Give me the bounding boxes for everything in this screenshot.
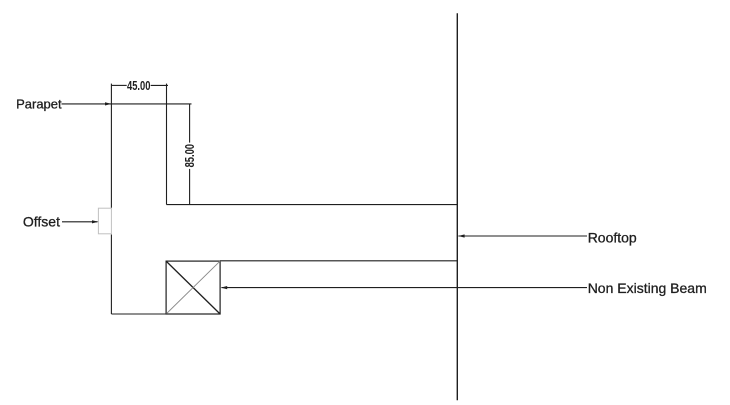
svg-text:45.00: 45.00 [127,80,150,94]
node parapet leader arrowhead [105,102,111,105]
wire rooftop bottom surface [220,260,457,262]
wire parapet bottom edge [111,313,220,315]
node non existing beam crossed box [166,261,220,314]
wire beam box diagonal black [166,261,220,314]
wire building wall vertical line [456,13,458,400]
node non existing beam leader arrowhead [221,286,227,289]
wire dimension line 45.00 right segment [151,84,168,86]
node offset leader arrowhead [92,220,98,223]
svg-text:Rooftop: Rooftop [588,230,637,246]
wire parapet left wall upper segment [110,84,112,208]
wire rooftop leader [458,235,587,237]
wire non existing beam leader [222,287,588,289]
svg-text:Offset: Offset [23,213,60,229]
wire parapet top edge + leader to Parapet label [62,103,192,105]
wire beam box diagonal gray [166,261,220,314]
svg-text:85.00: 85.00 [184,144,198,167]
wire offset leader [62,221,98,223]
svg-text:Parapet: Parapet [16,96,62,111]
wire parapet inner wall [166,84,168,205]
wire dimension line 45.00 left segment [111,84,126,86]
node offset tab rectangle [98,208,111,234]
wire vertical dimension 85.00 upper segment [189,104,191,143]
svg-text:Non Existing Beam: Non Existing Beam [588,280,707,296]
wire vertical dimension 85.00 lower segment [189,169,191,205]
node rooftop leader arrowhead [458,234,464,237]
wire rooftop top surface [167,204,458,206]
wire parapet left wall lower segment [110,235,112,315]
